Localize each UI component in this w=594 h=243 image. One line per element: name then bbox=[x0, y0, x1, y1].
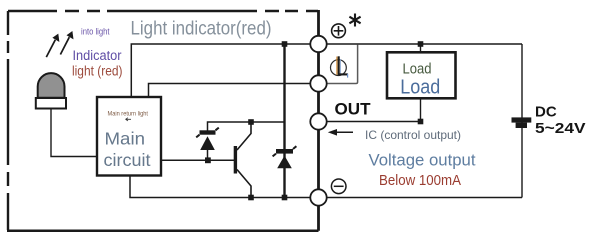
zener diode ZD2 (right) bbox=[273, 146, 297, 168]
svg-text:Light indicator(red): Light indicator(red) bbox=[131, 18, 272, 40]
svg-text:Load: Load bbox=[400, 76, 440, 98]
symbol: circled minus bbox=[331, 179, 346, 194]
wire A: Vcc from main circuit to terminal 1 bbox=[131, 44, 310, 97]
terminal 4 (0V) bbox=[310, 189, 326, 205]
svg-text:Main: Main bbox=[105, 129, 146, 149]
wire: base drive from main circuit bbox=[161, 159, 235, 161]
symbol: asterisk bbox=[349, 14, 360, 27]
svg-text:5~24V: 5~24V bbox=[535, 120, 586, 137]
terminal 2 (L) bbox=[310, 75, 326, 91]
svg-text:Voltage output: Voltage output bbox=[369, 152, 476, 170]
wire: zener branch vertical bbox=[283, 44, 285, 198]
junction: emitter / bottom wire bbox=[248, 195, 254, 201]
battery symbol (DC source) bbox=[512, 117, 532, 128]
junction: ZD2 / bottom wire bbox=[282, 195, 288, 201]
sensor enclosure dashed outline (left edge) bbox=[7, 11, 9, 230]
junction: collector / top rail bbox=[248, 119, 254, 125]
sensor enclosure dashed outline (top edge) bbox=[8, 10, 318, 12]
wire: top clamp rail bbox=[208, 122, 285, 131]
wire: bottom return from main circuit bbox=[130, 176, 310, 198]
zener diode ZD1 (left) bbox=[196, 128, 219, 158]
wire: terminal rail (right vertical) bbox=[317, 10, 320, 231]
transistor Q1 bbox=[234, 122, 251, 198]
terminal 3 (OUT) bbox=[310, 113, 326, 129]
wire: load top lead bbox=[420, 44, 422, 52]
svg-text:into light: into light bbox=[81, 27, 110, 37]
loop wire: terminal 2 tied to +V wire bbox=[327, 45, 358, 84]
tiny mark under label bbox=[126, 118, 132, 121]
wire: OUT to load bbox=[327, 121, 421, 123]
svg-text:circuit: circuit bbox=[104, 150, 151, 170]
svg-text:IC (control output): IC (control output) bbox=[365, 128, 461, 142]
junction: wire A / zener branch bbox=[282, 41, 288, 47]
svg-text:Main return light: Main return light bbox=[108, 110, 149, 117]
wire: enclosure bottom (0V bus) bbox=[7, 230, 319, 233]
wire: DC return to terminal 4 bbox=[327, 197, 522, 199]
wire: load bottom lead bbox=[420, 98, 422, 121]
symbol: circled L bbox=[329, 56, 352, 80]
junction: load bottom / OUT wire bbox=[418, 119, 424, 125]
svg-text:light (red): light (red) bbox=[72, 63, 123, 79]
wire B: main circuit to terminal 2 bbox=[149, 84, 311, 98]
wire: +V to DC supply bbox=[327, 43, 522, 45]
IC output arrow bbox=[328, 129, 353, 136]
svg-text:DC: DC bbox=[535, 103, 557, 120]
light emission arrow 1 bbox=[46, 34, 59, 58]
main circuit box U1 bbox=[97, 97, 161, 176]
load box bbox=[387, 52, 456, 98]
terminal 1 (+V) bbox=[310, 36, 326, 52]
junction: base wire / ZD1 bbox=[205, 157, 211, 163]
svg-text:Load: Load bbox=[403, 61, 432, 77]
wire: DC supply rail bbox=[521, 44, 523, 198]
svg-text:Below 100mA: Below 100mA bbox=[379, 173, 461, 189]
svg-text:OUT: OUT bbox=[335, 101, 371, 119]
svg-text:Indicator: Indicator bbox=[73, 48, 122, 63]
light emission arrow 2 bbox=[60, 31, 73, 55]
junction: load top bbox=[418, 41, 424, 47]
wire: LED lead to main circuit bbox=[51, 109, 97, 157]
LED indicator lamp (dome) bbox=[36, 73, 66, 108]
symbol: circled plus bbox=[332, 24, 346, 38]
